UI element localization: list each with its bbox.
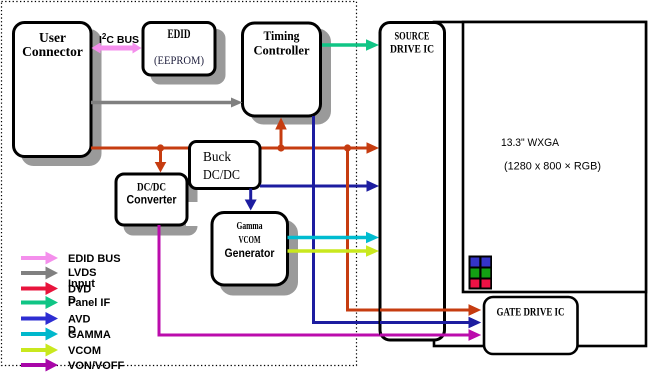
- wire Panel IF arrow Timing to Source: [322, 43, 367, 47]
- legend arrow VCOM: [21, 344, 58, 357]
- svg-text:Timing: Timing: [264, 29, 301, 43]
- svg-text:(1280 x 800 × RGB): (1280 x 800 × RGB): [504, 161, 601, 173]
- shadow of Timing Controller: [252, 30, 330, 123]
- svg-text:User: User: [39, 30, 66, 45]
- legend arrow DVDD: [21, 282, 58, 295]
- block User Connector: [14, 23, 92, 157]
- svg-text:13.3" WXGA: 13.3" WXGA: [501, 137, 560, 149]
- RGB pixel icon: [469, 256, 493, 290]
- svg-text:Panel IF: Panel IF: [68, 297, 110, 309]
- legend arrow Panel IF: [21, 296, 58, 309]
- arrow DVDD into SOURCE DRIVE IC: [367, 142, 380, 154]
- svg-text:Buck: Buck: [203, 150, 231, 165]
- wire AVDD Buck to Source: [260, 185, 367, 188]
- wire DVDD down to DC/DC Converter: [159, 148, 162, 163]
- wire AVDD Timing down to Gate: [314, 116, 470, 323]
- legend arrow LVDS: [21, 267, 58, 280]
- svg-text:GATE DRIVE IC: GATE DRIVE IC: [497, 307, 565, 319]
- wire DVDD branch to Gate: [348, 148, 470, 310]
- junction dot at DC/DC branch: [157, 144, 164, 151]
- panel glass area: [463, 22, 646, 292]
- shadow of DC/DC Converter: [125, 183, 196, 234]
- wire I2C bus double arrow: [99, 46, 134, 51]
- legend arrow GAMMA: [21, 328, 58, 341]
- white patch trimming DC/DC shadow: [186, 202, 200, 226]
- dashed module boundary: [2, 2, 357, 366]
- wire DVDD up to Timing Controller: [280, 129, 283, 148]
- svg-text:VON/VOFF: VON/VOFF: [68, 360, 125, 372]
- wire VON/VOFF DC/DC to Gate: [159, 225, 469, 335]
- block Gamma VCOM Generator: [212, 213, 288, 286]
- svg-text:DRIVE IC: DRIVE IC: [390, 44, 434, 56]
- block Buck DC/DC: [190, 142, 261, 189]
- legend arrow AVDD: [21, 312, 58, 325]
- svg-text:DC/DC: DC/DC: [137, 180, 166, 194]
- svg-text:Generator: Generator: [225, 246, 275, 260]
- block EDID (EEPROM): [143, 23, 215, 76]
- shadow of EDID box: [152, 31, 224, 84]
- svg-text:SOURCE: SOURCE: [395, 31, 430, 43]
- svg-text:EDID: EDID: [168, 27, 191, 41]
- svg-text:DC/DC: DC/DC: [203, 168, 240, 183]
- wire GAMMA arrow Gamma to Source: [288, 236, 368, 240]
- panel outer enclosure: [434, 22, 646, 346]
- svg-text:Controller: Controller: [254, 44, 310, 58]
- junction dot at Timing branch: [277, 144, 284, 151]
- svg-text:EDID BUS: EDID BUS: [68, 253, 121, 265]
- wire VCOM arrow Gamma to Source: [288, 249, 368, 253]
- svg-text:GAMMA: GAMMA: [68, 329, 111, 341]
- block SOURCE DRIVE IC: [380, 23, 445, 341]
- junction dot at gate branch: [344, 144, 351, 151]
- wire DVDD horizontal bus: [91, 147, 367, 150]
- legend arrow EDID BUS: [21, 252, 58, 265]
- wire AVDD Buck down to Gamma: [249, 189, 252, 201]
- svg-text:Converter: Converter: [127, 193, 177, 207]
- svg-text:Connector: Connector: [22, 44, 83, 59]
- svg-text:(EEPROM): (EEPROM): [154, 55, 204, 67]
- wires crossing over source IC into gate (redraw over box): [380, 309, 469, 312]
- block GATE DRIVE IC: [484, 297, 578, 354]
- shadow of User Connector: [23, 31, 101, 165]
- legend labels: [68, 253, 125, 372]
- svg-text:Gamma: Gamma: [237, 221, 264, 232]
- shadow of Gamma VCOM Generator: [221, 222, 297, 295]
- svg-text:VCOM: VCOM: [68, 345, 101, 357]
- block Timing Controller: [243, 23, 321, 116]
- legend arrow VON/VOFF: [21, 359, 58, 372]
- wire LVDS arrow: [91, 101, 232, 105]
- block DC/DC Converter: [116, 174, 187, 225]
- svg-text:VCOM: VCOM: [239, 234, 261, 246]
